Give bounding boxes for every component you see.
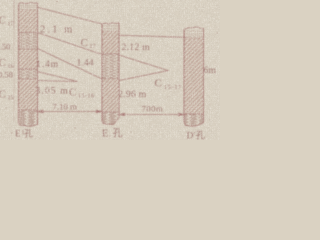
column E outline (vertical walls) [102, 23, 119, 121]
column E' outline (vertical walls) [19, 3, 38, 125]
column E' : parting 1.50 (dashes) [19, 33, 38, 50]
borehole column E (middle): overburden stipple cap [102, 22, 119, 31]
column E : parting 1.44 (dashes) [102, 54, 119, 79]
pinch-out wedge of parting 0.58 between E' and E [38, 72, 78, 82]
aged paper mottling overlay [0, 0, 220, 140]
column E : coal seam C17 (hatched) [102, 31, 119, 54]
column D' outline (vertical walls) [184, 28, 204, 123]
table rule (faint vertical line left margin) [13, 0, 15, 28]
borehole column D' (right): overburden stipple cap [184, 27, 204, 38]
correlation line: top of merged seam from E to D' [119, 35, 186, 37]
correlation line: bottom of parting / top of C16, E' to E [38, 49, 103, 80]
column D' : merged coal seam C15-17 (hatched) [184, 38, 204, 114]
pinch-out wedge of parting 1.44 between E and D' [119, 55, 168, 81]
column E' : floor rock (horizontal lines, torn bottom) [19, 110, 38, 127]
paper background [0, 0, 220, 140]
correlation line: top of seam C17 from E' to E [38, 7, 103, 24]
column E : merged coal seam C15-16 (hatched) [102, 79, 119, 113]
column E' : coal seam C15 (hatched) [19, 79, 38, 110]
column E : floor rock (horizontal lines, torn bottom) [102, 112, 119, 125]
column D' : floor rock (horizontal lines, torn bottom) [184, 114, 204, 127]
dimension line 7.10 m between E' and E [34, 110, 102, 113]
borehole column E' (left): overburden stipple cap [19, 2, 38, 9]
dirt specks [5, 1, 217, 134]
dimension line 700 m between E and D' [117, 113, 187, 116]
column E' : coal seam C16 (hatched) [19, 49, 38, 69]
column E' : coal seam C17 (hatched) [19, 10, 38, 33]
correlation line: bottom of C17 / top of parting, E' to E [38, 33, 103, 55]
fine grain dark [0, 0, 220, 140]
column E' : parting 0.58 (dashes) [19, 69, 38, 79]
fine grain light [0, 0, 220, 140]
